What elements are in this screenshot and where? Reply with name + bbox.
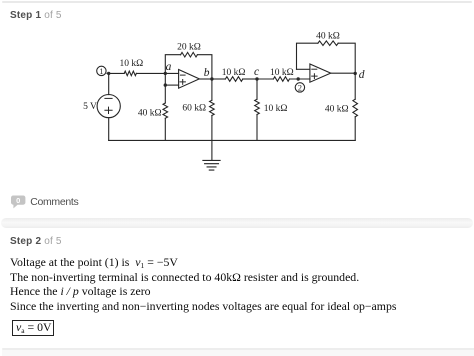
wire R5 to node c	[243, 78, 257, 80]
wire node1 to resistor R1	[107, 72, 124, 74]
solution text	[10, 255, 470, 313]
resistor R2 20k zigzag	[181, 52, 198, 57]
svg-text:60 kΩ: 60 kΩ	[182, 103, 206, 113]
boxed answer va = 0V	[12, 320, 54, 336]
junction dot node d	[354, 72, 357, 75]
wire node b down to R4	[211, 79, 213, 100]
ground symbol bars	[203, 160, 220, 170]
svg-text:d: d	[359, 69, 365, 81]
wire R2 down to node b	[197, 55, 212, 79]
wire node b to R5	[212, 78, 226, 80]
svg-text:2: 2	[298, 83, 302, 93]
op-amp U2 plus sign	[312, 74, 317, 79]
wire R3 to bottom rail	[164, 118, 166, 140]
svg-text:40 kΩ: 40 kΩ	[316, 32, 340, 42]
step 2 header	[10, 237, 62, 247]
bottom rail wire	[109, 139, 356, 141]
wire R7 to op-amp U2 plus input	[290, 78, 311, 80]
wire non-inverting input U1	[165, 84, 178, 86]
svg-text:1: 1	[99, 66, 103, 76]
voltage source V1 plus sign	[105, 107, 112, 113]
svg-text:10 kΩ: 10 kΩ	[222, 68, 246, 78]
svg-text:10 kΩ: 10 kΩ	[264, 104, 288, 114]
comments icon speech bubble	[10, 195, 30, 211]
step 1 header	[10, 11, 62, 21]
wire R8 down to node d	[338, 43, 355, 73]
wire R9 to bottom rail	[354, 117, 356, 141]
bottom separator top edge	[2, 348, 474, 350]
junction dot node 2	[297, 77, 300, 80]
ground stem	[211, 140, 213, 160]
svg-text:b: b	[204, 67, 210, 79]
junction dot node c	[255, 77, 258, 80]
resistor R7 10k zigzag	[273, 77, 289, 82]
resistor R4 60k vertical zigzag	[210, 100, 215, 115]
resistor R8 40k zigzag	[318, 41, 338, 46]
op-amp U1 plus sign	[180, 80, 185, 85]
wire U1 output to node b	[199, 78, 212, 80]
wire node c down to R6	[256, 79, 258, 99]
svg-text:a: a	[166, 61, 172, 73]
svg-text:10 kΩ: 10 kΩ	[119, 59, 143, 69]
svg-text:40 kΩ: 40 kΩ	[138, 108, 162, 118]
junction dot node 1	[107, 72, 110, 75]
node 1 circle label	[97, 66, 106, 76]
voltage source V1 circle	[97, 95, 120, 118]
wire node a down to R3	[164, 73, 166, 103]
junction dot node b	[210, 77, 213, 80]
resistor R6 10k vertical zigzag	[255, 99, 260, 114]
op-amp U1 minus sign	[180, 74, 185, 76]
wire U2 inverting input from feedback	[297, 68, 311, 70]
resistor R1 10k zigzag	[124, 71, 136, 76]
op-amp U2 triangle	[310, 64, 331, 82]
svg-text:20 kΩ: 20 kΩ	[177, 42, 201, 52]
node 2 circle label	[295, 83, 304, 93]
wire source V1 to bottom rail	[108, 118, 110, 141]
comments label	[30, 196, 78, 208]
op-amp U2 minus sign	[312, 68, 317, 70]
junction dot U1 plus input	[164, 83, 167, 86]
wire node d down to R9	[354, 73, 356, 99]
svg-text:10 kΩ: 10 kΩ	[270, 68, 294, 78]
wire R1 to node a	[136, 72, 178, 74]
wire R6 to bottom rail	[256, 115, 258, 141]
feedback wire a up and across (20k branch)	[165, 55, 180, 74]
separator bar between steps	[1, 218, 473, 228]
wire R4 to bottom rail	[211, 116, 213, 141]
wire node1 down to source V1	[108, 73, 110, 94]
op-amp U1 triangle	[179, 70, 200, 89]
card top border	[2, 1, 472, 3]
svg-text:0: 0	[16, 196, 20, 205]
svg-text:5 V: 5 V	[83, 102, 97, 112]
wire node c to R7	[257, 78, 273, 80]
resistor R9 40k vertical zigzag	[353, 99, 358, 117]
svg-text:c: c	[254, 66, 259, 78]
wire U2 output to node d	[331, 72, 356, 74]
resistor R3 40k vertical zigzag	[163, 103, 168, 118]
resistor R5 10k zigzag	[225, 77, 242, 82]
junction dot node a	[164, 72, 167, 75]
voltage source V1 minus sign	[105, 97, 112, 99]
feedback wire up and across (40k branch U2)	[297, 43, 318, 69]
svg-text:40 kΩ: 40 kΩ	[325, 105, 349, 115]
